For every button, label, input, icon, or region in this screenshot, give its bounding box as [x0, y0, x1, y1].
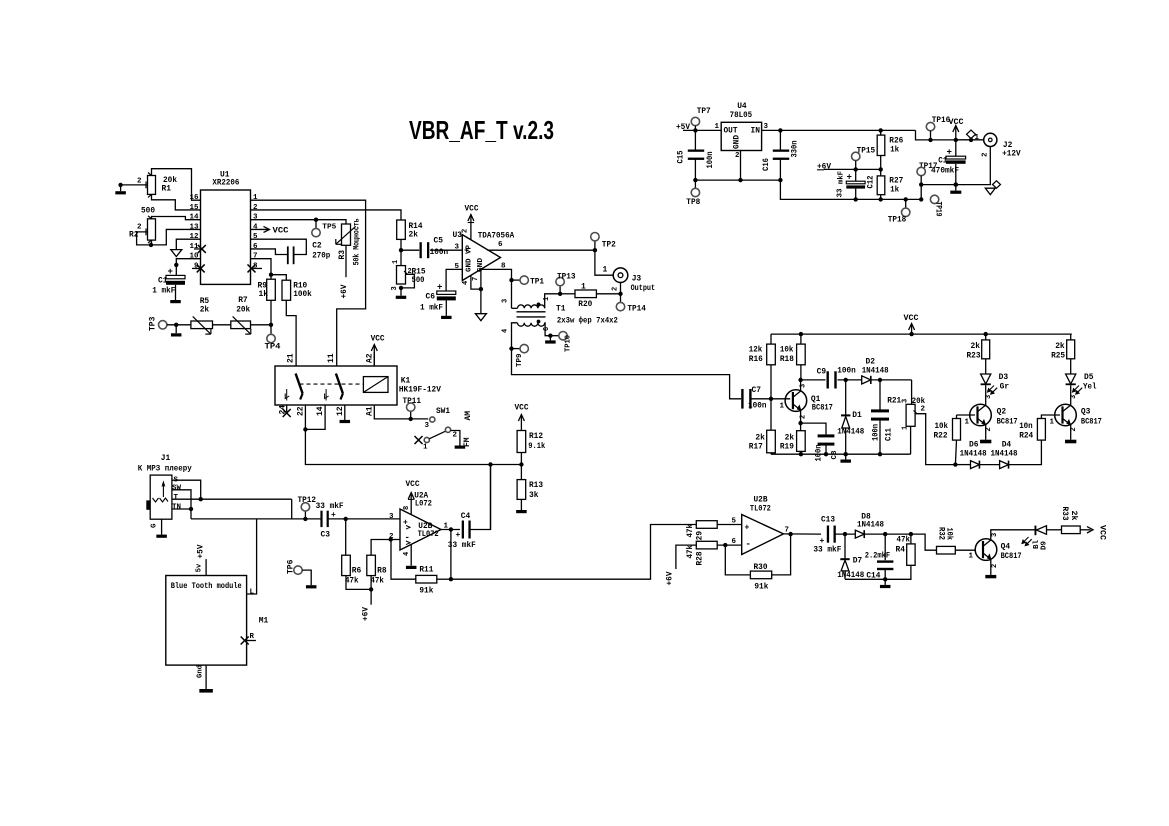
svg-text:2x3w фер 7x4x2: 2x3w фер 7x4x2 — [557, 317, 618, 326]
U3 VCC arrow pin 2 — [470, 215, 472, 240]
U2 pin4 ground — [410, 545, 412, 566]
wire U1 pin3 to R3 — [251, 220, 347, 224]
wire C4 right to node — [469, 465, 491, 530]
svg-text:R: R — [250, 633, 255, 641]
svg-text:12k: 12k — [749, 346, 763, 355]
wire U3 pin5 to C6 — [446, 269, 462, 290]
op-amp U3 TDA7056A body — [462, 235, 500, 281]
relay K1 contact 1 — [296, 374, 303, 394]
ground symbols at J2 — [993, 181, 1001, 188]
trimmer R21 20k — [906, 404, 915, 426]
svg-text:R16: R16 — [749, 355, 763, 364]
svg-text:D4: D4 — [1002, 441, 1012, 450]
junction dot Q1 emitter — [798, 421, 802, 425]
resistor R4 47k — [910, 534, 912, 544]
resistor R11 91k — [416, 575, 437, 583]
svg-text:GND VP: GND VP — [466, 245, 474, 272]
svg-text:+: + — [456, 531, 461, 540]
diode D2 1N4148 — [862, 376, 871, 384]
svg-text:TP2: TP2 — [602, 241, 616, 250]
svg-text:Q3: Q3 — [1081, 408, 1091, 417]
svg-text:Blue Tooth module: Blue Tooth module — [171, 582, 242, 591]
wire C5 to U3 pin3 — [430, 249, 462, 251]
relay pin14 wire — [305, 405, 325, 429]
svg-text:TP14: TP14 — [627, 305, 646, 314]
svg-text:1: 1 — [543, 297, 551, 301]
junction dot R4 top — [909, 532, 913, 536]
junction dot TP15 — [854, 167, 858, 171]
LED D5 Yellow — [1070, 359, 1072, 374]
svg-text:3: 3 — [455, 244, 460, 252]
wire R20 to J3 node — [596, 293, 620, 295]
junction dot R23 rail — [984, 332, 988, 336]
wire R11 left to U2 pin2 — [391, 540, 416, 580]
svg-text:100n: 100n — [837, 367, 856, 376]
wire T1 primary right to R20 node — [545, 294, 560, 309]
wire U3 pin6 output to TP2 node — [488, 249, 595, 251]
svg-text:VCC: VCC — [515, 404, 529, 413]
svg-text:2k: 2k — [200, 306, 210, 315]
svg-text:33 mkF: 33 mkF — [813, 546, 841, 555]
op IC U1 XR2206 body — [201, 190, 251, 284]
wire C4 node down — [490, 465, 492, 530]
svg-text:OUT: OUT — [724, 127, 738, 136]
wire R12 bottom — [520, 453, 522, 480]
trimmer R3 50k — [342, 224, 351, 245]
svg-text:2k: 2k — [971, 342, 981, 351]
test point TP11 — [410, 411, 412, 419]
junction dot U2 output — [449, 527, 453, 531]
svg-text:VCC: VCC — [904, 314, 919, 323]
svg-text:11: 11 — [327, 353, 336, 363]
junction dot TP12 — [303, 517, 307, 521]
svg-text:22: 22 — [297, 406, 306, 416]
svg-text:10k: 10k — [945, 528, 954, 541]
wire T1 secondary left down to TP9 — [512, 323, 518, 349]
wire R1 bottom to U1 pin15 — [152, 194, 201, 210]
op-amp U2B TL072 body — [400, 509, 441, 550]
wire R6 R8 bottoms to +6V — [346, 576, 371, 590]
capacitor C16 330n — [779, 130, 781, 151]
svg-text:47k: 47k — [370, 577, 384, 586]
svg-text:21: 21 — [287, 353, 296, 363]
svg-text:6: 6 — [498, 241, 503, 249]
junction dot TP5 — [314, 218, 318, 222]
svg-text:C14: C14 — [866, 572, 880, 581]
svg-text:12: 12 — [336, 406, 345, 416]
wire R32 to Q4 base — [955, 549, 975, 551]
svg-text:R19: R19 — [780, 443, 794, 452]
wire R15 to ground — [400, 288, 402, 296]
junction dot R15 bottom — [399, 286, 403, 290]
svg-text:D1: D1 — [852, 411, 862, 420]
junction dot TP2 — [593, 248, 597, 252]
VCC step wire — [916, 130, 984, 140]
transformer T1 primary winding — [512, 307, 518, 309]
wire U1 pin6 to C2 left — [251, 249, 288, 255]
svg-text:M1: M1 — [259, 617, 269, 626]
resistor R30 91k — [750, 571, 771, 579]
ground below C14 — [884, 579, 886, 585]
svg-text:47k: 47k — [686, 545, 695, 559]
svg-text:3: 3 — [389, 513, 394, 521]
test point TP4 — [270, 325, 272, 335]
transistor Q1 BC817 — [785, 390, 807, 412]
J1 SW wire — [172, 490, 191, 509]
svg-text:270p: 270p — [312, 251, 330, 260]
junction dot R18 rail — [799, 332, 803, 336]
Q2 emitter ground — [985, 425, 987, 440]
junction dot U3 gnd — [479, 287, 483, 291]
junction dot C11 top — [878, 378, 882, 382]
svg-text:C5: C5 — [434, 237, 444, 246]
transistor Q3 BC817 — [1055, 404, 1077, 426]
svg-text:2.2mkF: 2.2mkF — [865, 552, 891, 561]
svg-text:3: 3 — [391, 286, 399, 290]
op-amp U2B TL072 (right) body — [742, 515, 784, 555]
svg-text:R12: R12 — [529, 432, 543, 441]
svg-text:1: 1 — [715, 123, 720, 131]
svg-text:2k: 2k — [1069, 511, 1078, 521]
svg-text:1: 1 — [965, 419, 970, 427]
svg-text:2: 2 — [137, 178, 142, 186]
junction dot C14 bottom — [883, 577, 887, 581]
svg-text:TP11: TP11 — [403, 397, 422, 406]
wire U1 pin16 to R1 top — [152, 169, 201, 201]
wire R27 bottom — [880, 195, 882, 200]
test point TP13 — [559, 286, 561, 294]
resistor R19 2k — [797, 431, 806, 452]
U1 pin 9 no-connect X — [197, 264, 205, 272]
capacitor C11 100n — [879, 380, 881, 410]
svg-text:U2B: U2B — [754, 496, 768, 505]
wire R21 wiper node to D6 — [955, 464, 970, 466]
wire U1 pin10 to C1 — [176, 259, 200, 265]
wire R2 top to U1 pin14 — [152, 217, 201, 220]
svg-text:2: 2 — [612, 287, 620, 291]
phase dot T1 primary — [537, 303, 541, 307]
resistor R17 2k — [767, 430, 776, 453]
wire U1 pin12 to ground — [176, 239, 200, 249]
wire D2 node down to R21 — [911, 380, 913, 404]
junction dot D7 top — [843, 532, 847, 536]
ground below R15 — [396, 296, 407, 299]
wire U2 output to C4 — [441, 529, 460, 531]
test point TP12 — [304, 511, 306, 519]
junction dot Q1 collector — [798, 378, 802, 382]
svg-text:C16: C16 — [762, 158, 771, 171]
regulator U4 78L05 body — [721, 122, 761, 150]
svg-text:R32: R32 — [937, 527, 946, 540]
ground below module — [199, 689, 213, 693]
relay A2 VCC wire — [373, 352, 375, 366]
svg-text:1: 1 — [1050, 419, 1055, 427]
capacitor C17 470mkF — [955, 140, 957, 156]
wire R17 bottom rail — [770, 453, 772, 454]
svg-text:2: 2 — [137, 224, 142, 232]
junction dot VCC — [954, 138, 958, 142]
svg-text:К МРЗ плееру: К МРЗ плееру — [138, 465, 192, 474]
relay K1 contact 2 — [336, 374, 343, 394]
SW1 throw2 ground wire — [451, 431, 460, 446]
svg-text:1: 1 — [392, 260, 400, 264]
junction dot above C1 — [174, 263, 178, 267]
wire BT module L branch — [247, 519, 257, 594]
junction dot C7/R16/R17 — [769, 397, 773, 401]
svg-text:C12: C12 — [867, 175, 876, 188]
wire Q2 collector to D3 — [985, 385, 987, 405]
svg-text:J1: J1 — [161, 454, 171, 463]
svg-text:91k: 91k — [419, 587, 433, 596]
svg-text:R27: R27 — [889, 177, 903, 186]
svg-text:Gnd: Gnd — [197, 665, 205, 678]
svg-text:R28: R28 — [696, 551, 705, 565]
svg-text:L: L — [250, 589, 255, 597]
LED D3 Green — [985, 359, 987, 374]
switch SW1 throw 1 — [424, 437, 429, 442]
junction dot R2 bottom — [149, 243, 153, 247]
capacitor C5 100n — [420, 242, 422, 258]
junction dot C12 bottom — [854, 197, 858, 201]
R1 wiper pin 2 wire — [121, 184, 148, 186]
svg-text:4: 4 — [462, 281, 470, 285]
wire T row down — [291, 499, 293, 519]
capacitor C9 100n — [801, 379, 826, 381]
resistor R33 2k — [1062, 526, 1081, 534]
VCC rail to J2 — [956, 139, 983, 141]
ground rail U4 — [695, 179, 780, 181]
test point TP2 — [594, 241, 596, 250]
svg-text:R26: R26 — [889, 137, 903, 146]
junction dot VCC rail — [909, 332, 913, 336]
wire D8 to C14 node — [864, 533, 911, 535]
capacitor C3 33mkF — [320, 511, 322, 527]
svg-text:R30: R30 — [754, 563, 768, 572]
svg-text:33: 33 — [837, 188, 845, 198]
svg-text:TP13: TP13 — [557, 273, 576, 282]
svg-text:BC817: BC817 — [812, 404, 833, 413]
svg-text:D6: D6 — [969, 441, 979, 450]
wire TP3 to R5 — [167, 324, 191, 326]
svg-text:C4: C4 — [461, 512, 471, 521]
relay K1 coil — [363, 377, 388, 393]
wire J3 pin1 to TP2 node — [595, 250, 613, 275]
wire U1 pin2 to R14 — [251, 210, 402, 220]
svg-text:SW1: SW1 — [436, 407, 450, 416]
trimmer R5 2k — [191, 321, 213, 329]
svg-text:TP7: TP7 — [697, 107, 711, 116]
trimmer R7 20k — [231, 321, 251, 329]
wire R9 to TP4 node — [270, 300, 272, 325]
junction dot R6 top — [344, 517, 348, 521]
wire D6 to D4 — [979, 464, 999, 466]
svg-text:R33: R33 — [1060, 507, 1069, 521]
svg-text:1N4148: 1N4148 — [862, 367, 889, 376]
bottom rail Q1 stage — [771, 453, 911, 455]
svg-text:R18: R18 — [780, 355, 794, 364]
ground at TP3 node — [175, 325, 177, 334]
relay A1 wire to SW1 — [374, 405, 428, 419]
svg-text:TP1: TP1 — [530, 277, 544, 286]
R2 wiper pin 2 wire — [137, 232, 151, 245]
wire R19 bottom — [800, 451, 802, 454]
svg-text:C13: C13 — [821, 516, 835, 525]
wire to R12/R13 junction — [491, 464, 522, 466]
svg-text:R23: R23 — [967, 352, 981, 361]
svg-text:2: 2 — [991, 564, 999, 568]
ground below C6 — [441, 316, 452, 319]
wire Q1 collector — [800, 380, 802, 391]
J2 pin2 wire — [921, 147, 990, 185]
junction dot C4 node — [488, 462, 492, 466]
J1 contact squiggles — [153, 498, 159, 502]
wire T1 secondary right to ground node — [545, 323, 551, 336]
svg-text:1: 1 — [780, 403, 785, 411]
capacitor C4 33mkF — [462, 521, 464, 539]
junction dot D1 bottom — [844, 452, 848, 456]
svg-text:3: 3 — [425, 422, 430, 430]
svg-text:Gr: Gr — [1000, 383, 1010, 392]
VCC arrow (power) — [955, 126, 957, 140]
svg-text:10k: 10k — [780, 346, 794, 355]
junction dot R14/R15/C5 — [399, 248, 403, 252]
svg-text:2: 2 — [462, 229, 470, 233]
svg-text:330n: 330n — [791, 140, 800, 157]
diode D1 1N4148 — [845, 380, 847, 416]
diode D6 1N4148 — [971, 461, 980, 469]
junction dot R9 bottom node — [269, 323, 273, 327]
Q3 emitter ground — [1070, 425, 1072, 440]
svg-text:J3: J3 — [632, 275, 642, 284]
U1 pin 8 no-connect X — [248, 264, 256, 272]
svg-text:TP5: TP5 — [322, 224, 337, 232]
J1 S wire — [172, 480, 201, 499]
wire R29 to +input — [717, 524, 742, 526]
junction dot R26/R27 — [879, 167, 883, 171]
test point TP14 — [620, 294, 622, 303]
junction dot R1 wiper — [118, 183, 122, 187]
TP6 ground wire — [302, 570, 311, 585]
svg-text:TP4: TP4 — [265, 343, 281, 352]
svg-text:R11: R11 — [419, 566, 433, 575]
wire R22 top to Q2 base — [956, 415, 958, 419]
resistor R24 10n — [1037, 419, 1045, 441]
resistor R9 1k — [267, 279, 276, 300]
resistor R6 47k — [345, 519, 347, 555]
wire U1 pin5 to C2 right — [251, 239, 307, 254]
svg-text:2: 2 — [453, 432, 458, 440]
svg-text:Q2: Q2 — [997, 408, 1007, 417]
svg-text:C2: C2 — [312, 241, 322, 250]
svg-text:VCC: VCC — [465, 205, 479, 214]
resistor R25 2k — [1071, 334, 1072, 340]
svg-text:TP8: TP8 — [686, 198, 700, 207]
resistor R28 47k — [696, 541, 717, 549]
svg-text:A1: A1 — [366, 406, 375, 416]
module Gnd wire — [205, 665, 207, 689]
resistor R22 10k — [953, 419, 961, 441]
capacitor C1 1mkF polarized — [175, 265, 177, 275]
wire U1 pin7 to R9/R10 — [251, 259, 272, 280]
svg-text:3: 3 — [902, 399, 910, 403]
svg-text:TDA7056A: TDA7056A — [478, 232, 515, 241]
relay K1 dashed link — [300, 383, 364, 385]
wire R30 right to output — [772, 534, 791, 575]
svg-text:XR2206: XR2206 — [212, 179, 239, 188]
svg-text:G: G — [151, 523, 159, 528]
svg-text:TP19: TP19 — [934, 202, 943, 217]
wire R11 right to output node — [437, 578, 451, 580]
VCC arrow above R12 — [520, 415, 522, 431]
svg-text:100k: 100k — [293, 290, 312, 299]
resistor R14 2k — [397, 220, 406, 239]
capacitor C14 2.2mkF — [884, 534, 886, 560]
wire U1 pin1 to relay pin 11 — [251, 200, 366, 366]
svg-text:2: 2 — [735, 152, 740, 160]
junction dot C17 bottom — [954, 182, 958, 186]
svg-text:R6: R6 — [352, 567, 362, 576]
resistor R8 47k — [367, 555, 376, 575]
svg-text:R22: R22 — [934, 432, 948, 441]
relay pin 24 stub — [286, 405, 288, 413]
svg-text:T1: T1 — [556, 305, 566, 314]
junction dot U2 pin2 — [389, 537, 393, 541]
svg-text:C11: C11 — [885, 428, 894, 441]
module R pin stub — [247, 640, 256, 642]
svg-text:10n: 10n — [1019, 422, 1033, 431]
svg-text:VCC: VCC — [273, 227, 289, 236]
svg-text:1: 1 — [975, 134, 980, 142]
svg-text:3k: 3k — [529, 491, 539, 500]
svg-text:VCC: VCC — [1098, 525, 1107, 540]
svg-text:10k: 10k — [935, 422, 949, 431]
svg-text:C1: C1 — [158, 277, 168, 286]
wire TP13 node to R20 — [560, 293, 575, 295]
svg-text:47k: 47k — [897, 536, 911, 545]
resistor R12 9.1k — [517, 431, 526, 453]
svg-text:6: 6 — [543, 327, 551, 331]
svg-text:R21: R21 — [887, 397, 901, 406]
junction dot U2B output — [788, 532, 792, 536]
svg-text:FM: FM — [463, 437, 472, 447]
test point TP1 — [512, 279, 521, 281]
svg-text:2: 2 — [982, 152, 990, 157]
junction dot D1 top — [844, 378, 848, 382]
svg-text:-: - — [746, 540, 751, 550]
svg-text:VCC: VCC — [949, 118, 964, 127]
svg-text:R24: R24 — [1019, 432, 1033, 441]
test point TP8 — [694, 180, 696, 188]
svg-text:R20: R20 — [578, 300, 592, 309]
svg-text:R4: R4 — [896, 546, 906, 555]
test point TP10 — [550, 335, 558, 337]
wire +6V stub — [370, 589, 372, 604]
wire R4 bottom — [885, 565, 911, 579]
wire R3 bottom to +6V — [345, 245, 347, 277]
wire U4 pin3 right — [762, 129, 916, 131]
svg-text:BC817: BC817 — [1001, 552, 1022, 561]
svg-text:A2: A2 — [366, 353, 375, 363]
resistor R23 2k — [985, 334, 987, 340]
svg-text:VCC: VCC — [406, 480, 420, 489]
svg-text:TL072: TL072 — [418, 530, 439, 539]
test point TP19 — [930, 195, 938, 203]
svg-text:TN: TN — [172, 504, 181, 512]
junction dot TN/SW — [189, 507, 193, 511]
svg-text:R13: R13 — [529, 481, 543, 490]
wire Q3 collector to D5 — [1070, 385, 1072, 405]
junction dot TP16 — [928, 138, 932, 142]
